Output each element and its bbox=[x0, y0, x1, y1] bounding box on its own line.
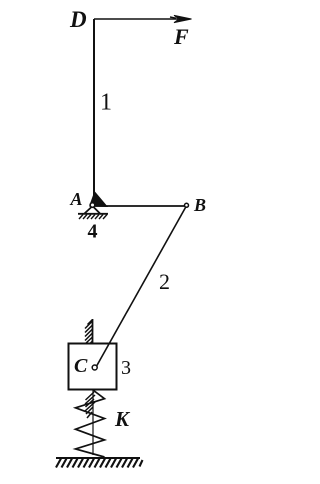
svg-text:C: C bbox=[74, 355, 88, 377]
svg-text:3: 3 bbox=[121, 357, 131, 379]
svg-text:F: F bbox=[173, 24, 189, 49]
svg-text:4: 4 bbox=[88, 221, 98, 243]
svg-text:2: 2 bbox=[159, 269, 170, 294]
svg-text:K: K bbox=[114, 407, 131, 431]
svg-text:B: B bbox=[193, 195, 206, 215]
svg-text:1: 1 bbox=[100, 90, 112, 116]
svg-text:A: A bbox=[70, 189, 83, 209]
svg-text:D: D bbox=[69, 7, 87, 32]
